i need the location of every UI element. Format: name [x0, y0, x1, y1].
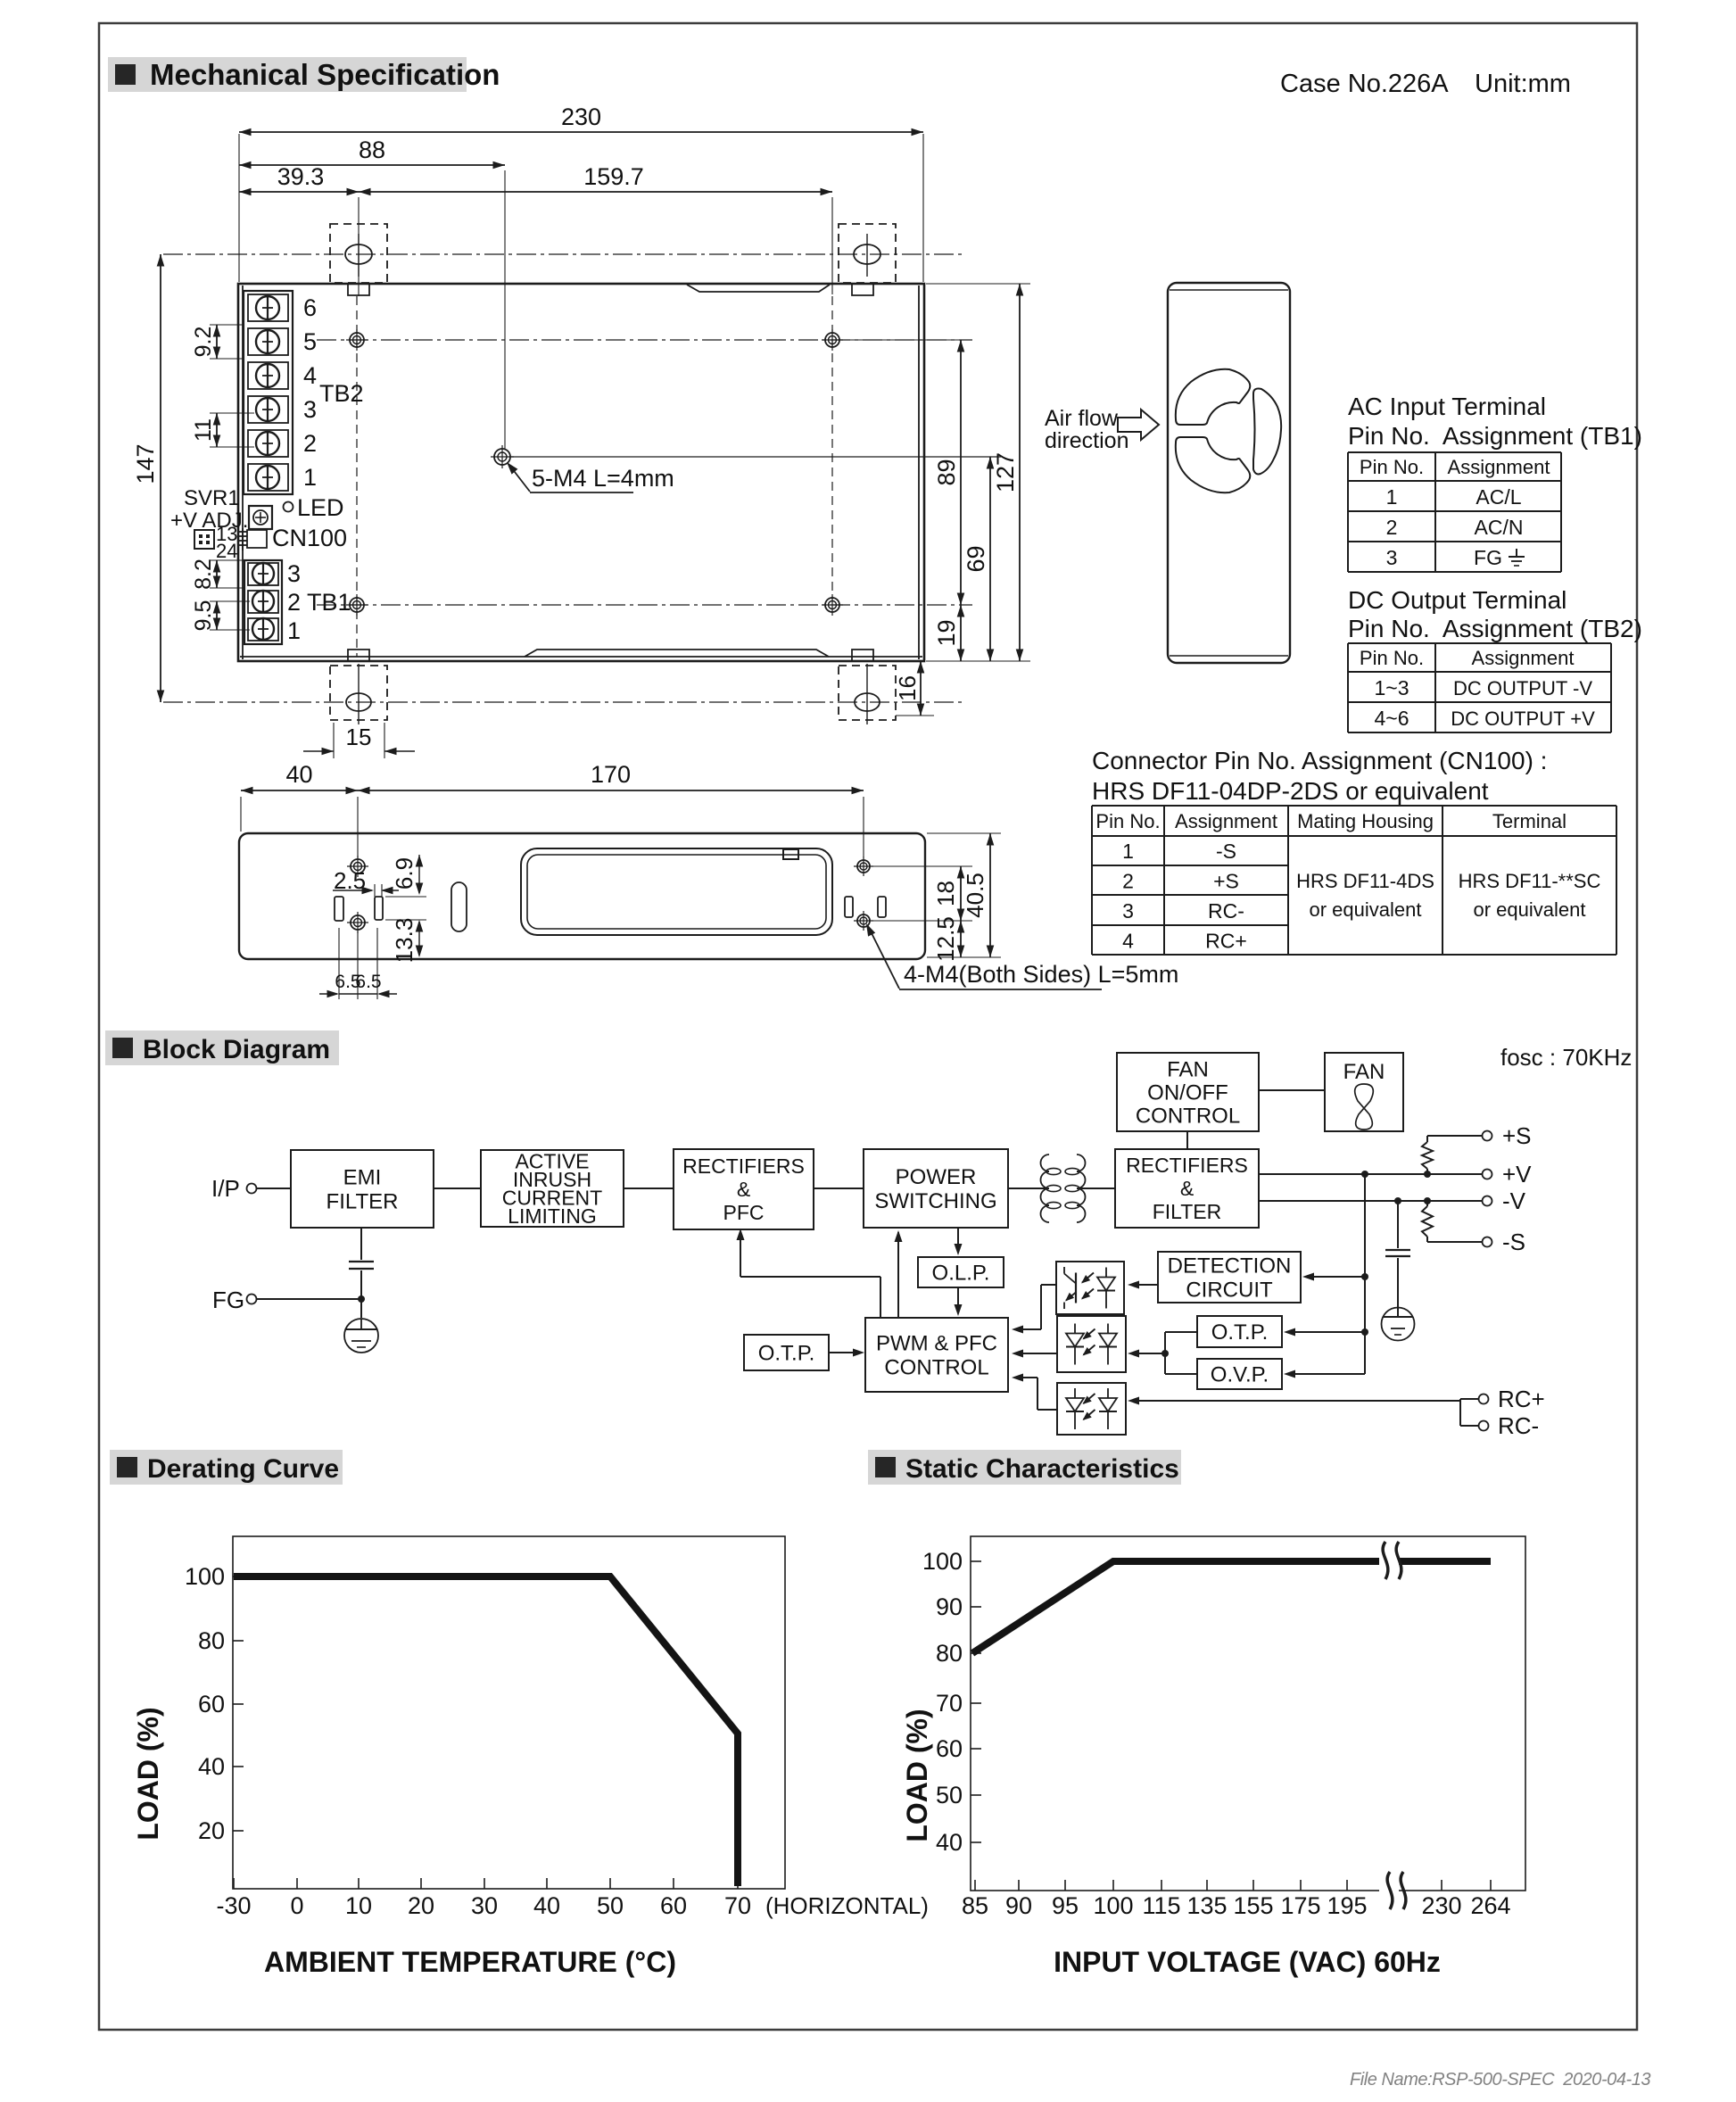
- svg-text:9.2: 9.2: [191, 327, 216, 358]
- svg-text:3: 3: [287, 560, 301, 587]
- svg-text:Assignment: Assignment: [1472, 647, 1575, 669]
- svg-text:O.T.P.: O.T.P.: [758, 1341, 815, 1365]
- svg-text:Connector Pin No. Assignment (: Connector Pin No. Assignment (CN100) :: [1092, 747, 1547, 774]
- svg-text:FAN: FAN: [1343, 1060, 1385, 1084]
- svg-text:115: 115: [1142, 1892, 1180, 1919]
- svg-text:8.2: 8.2: [191, 559, 216, 590]
- svg-text:TB2: TB2: [319, 380, 364, 407]
- svg-text:AC/L: AC/L: [1476, 485, 1521, 509]
- svg-text:SVR1: SVR1: [184, 486, 240, 510]
- svg-text:-30: -30: [216, 1892, 251, 1919]
- svg-text:80: 80: [936, 1640, 963, 1667]
- svg-text:3: 3: [303, 396, 317, 423]
- svg-text:+S: +S: [1502, 1122, 1532, 1149]
- svg-text:Mechanical Specification: Mechanical Specification: [150, 58, 500, 91]
- svg-text:Pin No.: Pin No.: [1095, 810, 1160, 832]
- svg-text:DC OUTPUT -V: DC OUTPUT -V: [1453, 677, 1592, 699]
- svg-text:Derating Curve: Derating Curve: [147, 1454, 339, 1484]
- svg-text:Pin No. Assignment (TB2): Pin No. Assignment (TB2): [1348, 615, 1642, 642]
- svg-text:135: 135: [1186, 1892, 1227, 1919]
- svg-text:175: 175: [1280, 1892, 1320, 1919]
- svg-text:RECTIFIERS: RECTIFIERS: [1126, 1154, 1248, 1177]
- svg-text:CN100: CN100: [272, 525, 347, 551]
- svg-text:20: 20: [408, 1892, 434, 1919]
- svg-text:95: 95: [1052, 1892, 1079, 1919]
- svg-text:FG: FG: [212, 1287, 244, 1313]
- svg-text:4: 4: [303, 362, 317, 389]
- svg-text:Assignment: Assignment: [1448, 456, 1550, 478]
- svg-text:O.T.P.: O.T.P.: [1211, 1320, 1269, 1345]
- svg-text:&: &: [1180, 1177, 1194, 1200]
- svg-text:PWM & PFC: PWM & PFC: [876, 1331, 997, 1355]
- svg-text:60: 60: [198, 1691, 225, 1717]
- svg-text:60: 60: [936, 1735, 963, 1762]
- svg-text:50: 50: [597, 1892, 624, 1919]
- svg-text:6.9: 6.9: [391, 857, 417, 890]
- svg-text:80: 80: [198, 1627, 225, 1654]
- svg-text:RECTIFIERS: RECTIFIERS: [682, 1154, 805, 1178]
- svg-text:Pin No.: Pin No.: [1360, 456, 1424, 478]
- svg-text:Pin No. Assignment (TB1): Pin No. Assignment (TB1): [1348, 422, 1642, 450]
- svg-text:20: 20: [198, 1817, 225, 1844]
- svg-text:11: 11: [191, 418, 216, 442]
- svg-text:-V: -V: [1502, 1188, 1526, 1214]
- svg-text:100: 100: [922, 1548, 963, 1575]
- svg-text:File Name:RSP-500-SPEC 2020-0: File Name:RSP-500-SPEC 2020-04-13: [1350, 2070, 1650, 2090]
- svg-text:13.3: 13.3: [391, 918, 417, 964]
- svg-text:127: 127: [992, 452, 1019, 492]
- svg-text:5-M4 L=4mm: 5-M4 L=4mm: [532, 465, 674, 492]
- svg-text:1~3: 1~3: [1374, 676, 1409, 699]
- svg-text:12.5: 12.5: [932, 916, 959, 962]
- svg-text:direction: direction: [1045, 428, 1129, 453]
- svg-text:0: 0: [290, 1892, 303, 1919]
- svg-text:fosc : 70KHz: fosc : 70KHz: [1500, 1044, 1632, 1071]
- svg-text:RC+: RC+: [1205, 930, 1247, 953]
- svg-text:1: 1: [1386, 485, 1398, 509]
- svg-text:Mating Housing: Mating Housing: [1297, 810, 1434, 832]
- svg-text:LED: LED: [297, 494, 344, 521]
- svg-text:HRS DF11-4DS: HRS DF11-4DS: [1296, 870, 1434, 892]
- svg-text:6.5: 6.5: [355, 972, 381, 992]
- svg-text:18: 18: [932, 881, 959, 906]
- svg-text:LIMITING: LIMITING: [508, 1204, 597, 1228]
- svg-text:2: 2: [287, 589, 301, 616]
- svg-text:RC+: RC+: [1498, 1386, 1545, 1412]
- svg-text:Air flow: Air flow: [1045, 406, 1119, 431]
- svg-text:4: 4: [1122, 930, 1134, 953]
- svg-text:or equivalent: or equivalent: [1474, 898, 1586, 921]
- svg-text:1: 1: [287, 617, 301, 644]
- svg-text:CONTROL: CONTROL: [1136, 1104, 1240, 1128]
- svg-text:50: 50: [936, 1782, 963, 1808]
- svg-text:Static Characteristics: Static Characteristics: [905, 1454, 1179, 1484]
- svg-text:-S: -S: [1216, 840, 1236, 863]
- svg-text:40: 40: [533, 1892, 560, 1919]
- svg-text:3: 3: [1122, 899, 1134, 923]
- svg-text:100: 100: [1093, 1892, 1133, 1919]
- svg-text:&: &: [737, 1178, 750, 1201]
- svg-text:40: 40: [198, 1753, 225, 1780]
- svg-text:CIRCUIT: CIRCUIT: [1186, 1278, 1273, 1302]
- svg-text:LOAD (%): LOAD (%): [901, 1709, 933, 1841]
- svg-text:69: 69: [963, 545, 989, 572]
- svg-text:CONTROL: CONTROL: [884, 1355, 988, 1379]
- svg-text:24: 24: [216, 540, 237, 562]
- svg-text:3: 3: [1386, 546, 1398, 569]
- svg-text:1: 1: [1122, 840, 1134, 863]
- svg-text:Block Diagram: Block Diagram: [143, 1035, 330, 1064]
- svg-text:SWITCHING: SWITCHING: [874, 1189, 996, 1213]
- svg-text:9.5: 9.5: [191, 600, 216, 632]
- svg-text:39.3: 39.3: [277, 163, 325, 190]
- svg-text:60: 60: [660, 1892, 687, 1919]
- svg-text:40.5: 40.5: [962, 873, 988, 918]
- svg-text:I/P: I/P: [211, 1175, 240, 1202]
- svg-text:+S: +S: [1213, 870, 1239, 893]
- svg-text:EMI: EMI: [343, 1165, 382, 1189]
- svg-text:HRS DF11-**SC: HRS DF11-**SC: [1459, 870, 1601, 892]
- svg-text:264: 264: [1470, 1892, 1510, 1919]
- svg-text:Pin No.: Pin No.: [1360, 647, 1424, 669]
- svg-text:ON/OFF: ON/OFF: [1147, 1080, 1228, 1105]
- svg-text:5: 5: [303, 328, 317, 355]
- svg-text:230: 230: [1421, 1892, 1461, 1919]
- svg-text:-S: -S: [1502, 1229, 1525, 1255]
- svg-text:Case No.226A: Case No.226A: [1280, 70, 1449, 98]
- svg-text:FG: FG: [1474, 546, 1502, 569]
- svg-text:30: 30: [471, 1892, 498, 1919]
- svg-text:4-M4(Both Sides) L=5mm: 4-M4(Both Sides) L=5mm: [904, 961, 1178, 988]
- svg-text:RC-: RC-: [1498, 1412, 1539, 1439]
- svg-text:16: 16: [894, 675, 921, 701]
- svg-text:147: 147: [132, 443, 159, 484]
- svg-text:195: 195: [1327, 1892, 1367, 1919]
- svg-text:Terminal: Terminal: [1492, 810, 1567, 832]
- svg-text:85: 85: [962, 1892, 988, 1919]
- svg-text:AC Input Terminal: AC Input Terminal: [1348, 393, 1546, 420]
- svg-text:or equivalent: or equivalent: [1310, 898, 1422, 921]
- svg-text:155: 155: [1233, 1892, 1273, 1919]
- svg-text:INPUT VOLTAGE (VAC) 60Hz: INPUT VOLTAGE (VAC) 60Hz: [1054, 1946, 1441, 1978]
- svg-text:230: 230: [561, 103, 601, 130]
- svg-text:DC Output Terminal: DC Output Terminal: [1348, 586, 1567, 614]
- svg-text:(HORIZONTAL): (HORIZONTAL): [765, 1892, 929, 1919]
- svg-text:RC-: RC-: [1208, 899, 1244, 923]
- svg-text:90: 90: [1005, 1892, 1032, 1919]
- svg-text:O.L.P.: O.L.P.: [932, 1261, 990, 1285]
- svg-text:POWER: POWER: [896, 1165, 977, 1189]
- svg-text:Assignment: Assignment: [1175, 810, 1277, 832]
- svg-text:1: 1: [303, 464, 317, 491]
- svg-text:DC OUTPUT +V: DC OUTPUT +V: [1451, 708, 1595, 730]
- svg-text:FAN: FAN: [1167, 1057, 1209, 1081]
- svg-text:100: 100: [185, 1563, 225, 1590]
- svg-text:40: 40: [285, 761, 312, 788]
- svg-text:40: 40: [936, 1829, 963, 1856]
- svg-text:159.7: 159.7: [583, 163, 644, 190]
- svg-text:O.V.P.: O.V.P.: [1211, 1362, 1269, 1386]
- svg-text:15: 15: [346, 724, 372, 750]
- svg-text:70: 70: [936, 1690, 963, 1717]
- svg-text:89: 89: [933, 459, 960, 485]
- svg-text:19: 19: [933, 619, 960, 646]
- svg-text:AMBIENT TEMPERATURE (°C): AMBIENT TEMPERATURE (°C): [264, 1946, 676, 1978]
- svg-text:DETECTION: DETECTION: [1168, 1254, 1292, 1278]
- svg-text:90: 90: [936, 1593, 963, 1620]
- svg-text:FILTER: FILTER: [1153, 1200, 1222, 1223]
- svg-text:HRS DF11-04DP-2DS or equivalen: HRS DF11-04DP-2DS or equivalent: [1092, 777, 1489, 805]
- svg-text:170: 170: [591, 761, 631, 788]
- svg-text:FILTER: FILTER: [327, 1189, 399, 1213]
- svg-text:Unit:mm: Unit:mm: [1475, 70, 1571, 98]
- svg-text:6: 6: [303, 294, 317, 321]
- svg-text:TB1: TB1: [307, 589, 351, 616]
- svg-text:+V: +V: [1502, 1161, 1532, 1188]
- svg-text:70: 70: [724, 1892, 751, 1919]
- svg-text:2: 2: [1122, 870, 1134, 893]
- svg-text:2: 2: [303, 430, 317, 457]
- svg-text:PFC: PFC: [723, 1201, 765, 1224]
- svg-text:88: 88: [359, 137, 385, 163]
- svg-text:10: 10: [345, 1892, 372, 1919]
- svg-text:AC/N: AC/N: [1475, 516, 1524, 539]
- svg-text:4~6: 4~6: [1374, 707, 1409, 730]
- svg-text:2: 2: [1386, 516, 1398, 539]
- svg-text:LOAD (%): LOAD (%): [132, 1707, 164, 1840]
